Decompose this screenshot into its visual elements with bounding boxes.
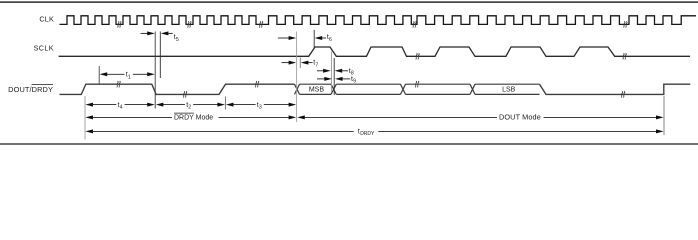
wire CLK waveform xyxy=(60,16,697,25)
wire DOUT/DRDY tail after LSB xyxy=(540,84,691,94)
extension line at DRDY rise x=225 xyxy=(224,97,226,110)
bus crossing MSB to bit2 xyxy=(331,84,336,94)
svg-text:DOUT Mode: DOUT Mode xyxy=(499,113,541,122)
bus entry crossing into MSB cell xyxy=(295,84,300,94)
break mark on DOUT/DRDY high near x=117 xyxy=(117,81,121,87)
svg-text:LSB: LSB xyxy=(502,87,516,94)
dimension t6 outside arrows xyxy=(278,34,332,43)
svg-text:MSB: MSB xyxy=(309,87,325,94)
break mark on CLK near x=118 xyxy=(118,21,122,27)
break mark on DOUT/DRDY low near x=622 xyxy=(621,91,625,97)
bus crossing bit2 to bit3 xyxy=(401,84,406,94)
dimension t1 xyxy=(100,72,155,81)
svg-text:CLK: CLK xyxy=(39,15,54,24)
svg-text:2: 2 xyxy=(188,105,191,111)
dimension t7 outside arrows xyxy=(282,60,319,69)
svg-text:9: 9 xyxy=(353,79,356,85)
svg-text:6: 6 xyxy=(329,37,332,43)
break mark on DOUT/DRDY high near x=256 xyxy=(255,81,259,87)
extension line at SCLK rise top x=314 xyxy=(313,30,315,49)
break mark on SCLK near x=623 xyxy=(623,53,627,59)
extension line at MSB cell end x=334 xyxy=(333,58,335,95)
break mark on CLK near x=624 xyxy=(624,21,628,27)
extension line at SCLK fall x=331 xyxy=(331,52,333,93)
signal label DOUT/DRDY with overline on DRDY xyxy=(8,85,53,94)
svg-text:5: 5 xyxy=(176,37,179,43)
label tDRDY xyxy=(358,128,375,137)
data cell MSB rails xyxy=(300,84,332,94)
break mark on bit3 cell top rail near x=416 xyxy=(415,81,419,87)
svg-text:7: 7 xyxy=(315,62,318,68)
label DRDY Mode with overline on DRDY xyxy=(174,113,213,122)
svg-text:1: 1 xyxy=(128,74,131,80)
dimension t3 xyxy=(226,102,296,111)
extension line at DRDY falling edge x=155 xyxy=(154,32,156,109)
break mark on CLK near x=260 xyxy=(259,21,263,27)
data cell bit2 rails xyxy=(336,84,400,94)
break mark on DOUT/DRDY low near x=184 xyxy=(183,91,187,97)
dimension DRDY Mode span xyxy=(85,115,296,119)
data cell bit3 rails xyxy=(406,84,471,94)
svg-text:SCLK: SCLK xyxy=(34,44,54,53)
svg-text:3: 3 xyxy=(259,105,262,111)
break mark on CLK near x=413 xyxy=(413,21,417,27)
figure bottom rule xyxy=(0,143,698,145)
break mark on SCLK near x=416 xyxy=(416,53,420,59)
dimension DOUT Mode span xyxy=(297,115,663,119)
dimension t4 xyxy=(85,102,154,111)
dimension t9 outside arrows xyxy=(317,76,356,85)
data cell LSB rails xyxy=(475,84,540,94)
wire SCLK waveform xyxy=(59,47,690,56)
svg-text:DRDY Mode: DRDY Mode xyxy=(174,115,213,122)
wire DOUT/DRDY waveform DRDY-mode pulse xyxy=(60,84,295,94)
bus crossing bit3 to LSB xyxy=(470,84,475,94)
extension line at CLK edge x=160 xyxy=(159,32,161,79)
figure top rule xyxy=(0,1,698,3)
break mark on CLK near x=188 xyxy=(188,21,192,27)
dimension t5 outside arrows xyxy=(141,31,179,42)
extension line t1 left x=99 xyxy=(98,66,100,84)
extension line t7 right x=300 xyxy=(299,58,301,69)
dimension tDRDY span xyxy=(85,129,663,133)
dimension t2 xyxy=(156,102,225,111)
extension line at DRDY rising edge x=85 xyxy=(84,96,86,140)
svg-text:DRDY: DRDY xyxy=(360,131,375,137)
svg-text:DOUT/DRDY: DOUT/DRDY xyxy=(8,85,53,94)
dimension t8 outside arrows xyxy=(317,68,354,77)
svg-text:4: 4 xyxy=(120,105,123,111)
extension line at mode boundary x=296 xyxy=(296,32,298,123)
extension line at DOUT rise x=664 xyxy=(663,96,665,135)
